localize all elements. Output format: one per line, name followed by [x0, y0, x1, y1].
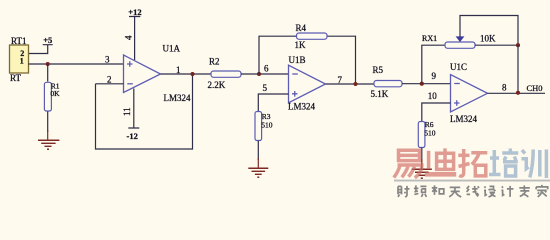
svg-text:2.2K: 2.2K	[208, 80, 226, 90]
watermark small char pin	[414, 185, 427, 197]
svg-text:5: 5	[263, 83, 268, 93]
svg-text:5.1K: 5.1K	[371, 89, 389, 99]
svg-text:U1A: U1A	[163, 44, 181, 54]
watermark small char tian	[449, 187, 461, 197]
svg-text:10: 10	[428, 91, 438, 101]
svg-text:0K: 0K	[50, 89, 60, 98]
op-amp U1B triangle	[289, 65, 326, 103]
ground below R3	[248, 158, 268, 177]
wire U1B pin5 to R3	[258, 94, 288, 112]
wire U1A pin2 input	[96, 83, 124, 85]
svg-text:RX1: RX1	[422, 34, 437, 43]
R4 feedback loop wire	[259, 36, 356, 84]
svg-text:11: 11	[122, 107, 132, 116]
node junction U1A output	[190, 72, 194, 76]
resistor R5	[374, 81, 402, 87]
power +5 symbol	[29, 45, 53, 54]
svg-text:2: 2	[107, 75, 112, 85]
wire R2 to U1B pin6	[241, 73, 289, 75]
svg-text:LM324: LM324	[450, 114, 478, 124]
wire R6 to ground	[421, 148, 423, 162]
node junction RX1 right	[516, 43, 520, 47]
svg-text:RT1: RT1	[11, 36, 26, 46]
RX1 wiper arrow	[456, 36, 465, 42]
svg-text:+5: +5	[43, 35, 52, 45]
svg-text:CH0: CH0	[527, 83, 543, 93]
node junction R2/R4/pin6	[257, 72, 261, 76]
power +12 symbol	[129, 17, 140, 61]
svg-text:RT: RT	[10, 73, 21, 83]
watermark small char xian	[467, 186, 480, 197]
op-amp U1A triangle	[124, 55, 161, 93]
node junction R5 / RX1 / pin9	[420, 82, 424, 86]
node junction U1C output	[516, 91, 520, 95]
svg-text:R2: R2	[209, 57, 220, 67]
op-amp U1C triangle	[451, 75, 488, 113]
ground below R6	[412, 159, 432, 178]
svg-text:4: 4	[124, 35, 134, 40]
power -12 symbol	[128, 89, 139, 129]
resistor R1	[44, 64, 51, 132]
node junction at R1 top	[46, 62, 50, 66]
svg-text:U1B: U1B	[289, 55, 306, 65]
wire RX1 right end	[475, 44, 518, 46]
watermark small char jia	[536, 185, 548, 197]
watermark small char he	[432, 185, 444, 195]
svg-text:1: 1	[20, 57, 24, 66]
wire RX1 wiper loop	[460, 16, 518, 46]
wire U1A output	[161, 73, 212, 75]
watermark big char di	[425, 148, 456, 174]
svg-text:1K: 1K	[295, 40, 307, 50]
svg-text:-12: -12	[127, 131, 138, 141]
watermark big char pei	[489, 149, 518, 177]
resistor R3	[255, 112, 262, 141]
svg-text:+12: +12	[128, 7, 141, 17]
svg-text:3: 3	[105, 55, 110, 65]
svg-text:510: 510	[424, 128, 436, 137]
wire RX1 left branch	[422, 45, 445, 83]
wire U1B output	[326, 83, 375, 85]
svg-text:6: 6	[264, 64, 269, 74]
component RT1 box	[10, 45, 29, 73]
svg-text:LM324: LM324	[164, 93, 192, 103]
watermark small char she	[398, 186, 410, 197]
wire RX1 to U1C output	[517, 45, 519, 93]
svg-text:8: 8	[502, 83, 507, 93]
svg-text:R4: R4	[296, 23, 307, 33]
resistor R4	[297, 33, 328, 39]
watermark underline	[394, 180, 550, 182]
watermark small char she2	[484, 186, 496, 197]
resistor R2	[211, 71, 241, 77]
watermark big char yi	[394, 150, 422, 178]
wire R5 to U1C pin9	[402, 83, 451, 85]
watermark big char xun	[522, 150, 547, 179]
svg-text:R5: R5	[373, 65, 384, 75]
watermark small char zhuan	[519, 185, 530, 197]
ground below R1	[38, 130, 59, 149]
wire U1C output to CH0	[488, 92, 546, 94]
svg-text:510: 510	[261, 120, 273, 129]
wire R3 to ground	[257, 141, 259, 161]
svg-text:10K: 10K	[480, 34, 496, 44]
svg-text:9: 9	[432, 71, 437, 81]
resistor R6	[418, 122, 425, 148]
svg-text:U1C: U1C	[450, 62, 467, 72]
wire U1C pin10 to R6	[422, 103, 451, 122]
watermark big char tuo	[458, 149, 487, 176]
node junction U1B output / R4	[353, 82, 357, 86]
watermark small char ji	[501, 186, 513, 197]
wire RT1 pin1 to U1A pin3	[29, 63, 124, 65]
ground below R6 (visible through watermark)	[412, 159, 432, 178]
svg-text:LM324: LM324	[288, 102, 316, 112]
potentiometer RX1 body	[445, 42, 475, 48]
feedback wire U1A output to inverting input	[96, 74, 193, 149]
